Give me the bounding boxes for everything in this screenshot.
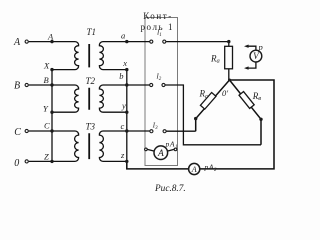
svg-text:T1: T1: [87, 27, 97, 37]
svg-text:C: C: [14, 127, 21, 138]
svg-text:y: y: [121, 101, 126, 111]
svg-text:A: A: [157, 149, 164, 159]
svg-text:X: X: [43, 60, 50, 70]
svg-text:z: z: [120, 150, 125, 160]
svg-text:a: a: [121, 31, 125, 41]
svg-text:Z: Z: [44, 151, 49, 161]
svg-text:A: A: [47, 32, 54, 42]
svg-text:C: C: [44, 121, 50, 131]
svg-text:T2: T2: [86, 76, 96, 86]
svg-text:A: A: [191, 165, 197, 174]
svg-text:B: B: [44, 75, 49, 85]
svg-text:c: c: [121, 121, 125, 131]
svg-text:A: A: [13, 37, 21, 48]
svg-text:B: B: [14, 81, 20, 92]
svg-text:Рис.8.7.: Рис.8.7.: [154, 184, 186, 194]
svg-text:0: 0: [14, 158, 19, 169]
svg-text:x: x: [122, 58, 127, 68]
svg-text:T3: T3: [86, 121, 96, 131]
svg-text:0′: 0′: [222, 88, 228, 98]
svg-text:Конт-: Конт-: [143, 11, 173, 21]
svg-text:b: b: [119, 71, 123, 81]
